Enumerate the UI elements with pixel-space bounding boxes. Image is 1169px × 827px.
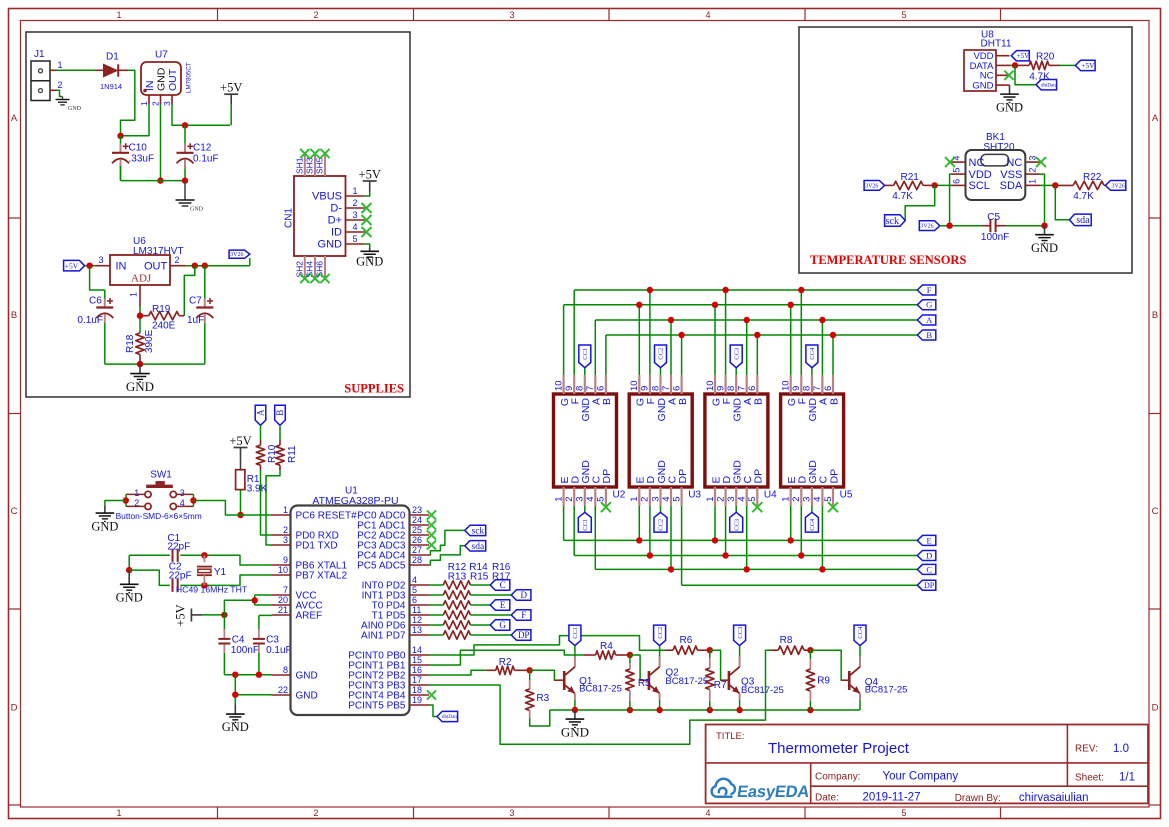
svg-text:GND: GND [155, 67, 167, 91]
ground below R18 [139, 364, 141, 374]
+5V net flag at U8 VDD [1011, 51, 1029, 61]
svg-text:6: 6 [412, 595, 417, 605]
wire U4 pin 9 to bus [725, 290, 727, 375]
wire U5 pin 2 to bus [800, 506, 802, 556]
svg-text:0.1uF: 0.1uF [77, 315, 103, 326]
junction at C12 top [182, 122, 188, 128]
U3 top pin 8 (GND) [659, 375, 661, 394]
svg-text:U4: U4 [764, 490, 777, 501]
resistor R21 4.7K [885, 184, 894, 186]
svg-text:G: G [926, 300, 932, 310]
U3 bottom pin 1 (E) [638, 487, 640, 506]
transistor Q2 BC817-25 [659, 646, 661, 657]
wire ADJ down [139, 306, 141, 333]
wire U4 pin 7 to bus [746, 320, 748, 375]
wire U3 pin 9 to bus [649, 290, 651, 375]
U1 pin 10 PB7 XTAL2 [272, 574, 291, 576]
svg-text:1uF: 1uF [187, 315, 204, 326]
resistor R1 3.9K [240, 458, 242, 470]
ground at crystal [128, 570, 130, 584]
wire U5 bottom GND to CC flag [811, 506, 813, 513]
net flag sda at U1 [465, 541, 486, 551]
svg-text:A: A [256, 409, 266, 416]
svg-text:28: 28 [412, 555, 422, 565]
svg-text:PC5 ADC5: PC5 ADC5 [357, 561, 406, 572]
svg-text:4.7K: 4.7K [892, 191, 913, 202]
svg-text:15: 15 [412, 655, 422, 665]
junction SCL [932, 182, 938, 188]
U4 top pin 8 (GND) [735, 375, 737, 394]
svg-text:SHT20: SHT20 [983, 142, 1015, 153]
svg-text:11: 11 [412, 605, 421, 615]
svg-text:3: 3 [283, 535, 288, 545]
U6 pin 3 IN [96, 265, 111, 267]
net flag CC3 above U4 [730, 345, 742, 368]
resistor R12 [429, 584, 443, 586]
svg-text:14: 14 [412, 645, 422, 655]
svg-text:CC1: CC1 [572, 627, 579, 639]
wire C5 to gnd junction [1006, 225, 1045, 227]
net flag A right [917, 315, 936, 325]
svg-text:6: 6 [747, 386, 758, 391]
svg-text:1: 1 [134, 488, 139, 498]
no-connect X on D+ [362, 215, 372, 225]
svg-text:+5V: +5V [220, 81, 242, 95]
wire U7 GND down [160, 104, 162, 181]
svg-text:D: D [11, 703, 18, 714]
svg-text:3: 3 [509, 808, 514, 818]
svg-text:GND: GND [296, 691, 318, 702]
svg-text:1.0: 1.0 [1113, 743, 1129, 755]
junction U4 A bus [744, 317, 750, 323]
wire U4 pin 10 to bus [714, 305, 716, 375]
crystal Y1 HC49 16MHz THT [203, 555, 205, 562]
resistor R3 [529, 670, 531, 680]
BK1 pin 1 SDA [1025, 184, 1039, 186]
wire U2 pin 4 to bus [594, 506, 596, 570]
wire U5 pin 6 to bus [832, 335, 834, 375]
wire U5 pin 10 to bus [790, 305, 792, 375]
svg-text:1: 1 [283, 505, 288, 515]
U5 bottom pin 3 (GND) [811, 487, 813, 506]
CN1 pin 2 D- [346, 207, 365, 209]
svg-text:AREF: AREF [296, 611, 323, 622]
svg-text:DP: DP [753, 469, 765, 484]
svg-text:3: 3 [162, 101, 172, 106]
svg-text:R15: R15 [470, 571, 489, 582]
svg-text:Button-SMD-6×6×5mm: Button-SMD-6×6×5mm [116, 511, 202, 521]
no-connect X on BK1 pin4 [945, 157, 955, 167]
svg-text:GND: GND [356, 254, 383, 268]
net flag CC2 above Q2 [654, 625, 666, 646]
svg-text:B: B [926, 330, 932, 340]
junction U4 G bus [712, 302, 718, 308]
svg-text:SH4: SH4 [305, 261, 315, 278]
svg-text:3: 3 [98, 255, 103, 265]
U2 bottom pin 4 (C) [594, 487, 596, 506]
CN1 pin SH6 [324, 256, 326, 280]
junction on ground rail x709 [707, 707, 713, 713]
U4 top pin 6 (B) [756, 375, 758, 394]
resistor R19 240E [140, 315, 149, 317]
junction ADJ-R19-R18 [137, 313, 143, 319]
no-connect X on U1 pin at y545 [427, 540, 436, 549]
wire U2 top GND to CC flag [584, 368, 586, 375]
svg-text:Your Company: Your Company [883, 771, 959, 783]
junction U7 GND at bottom rail [157, 177, 163, 183]
U2 top pin 8 (GND) [584, 375, 586, 394]
svg-text:Y1: Y1 [214, 567, 227, 578]
svg-text:2: 2 [174, 255, 179, 265]
wire SW1 to PC6 RESET [194, 501, 272, 516]
CN1 pin SH1 [304, 152, 306, 176]
svg-text:1N914: 1N914 [100, 82, 122, 91]
no-connect X on BK1 pin3 [1036, 157, 1046, 167]
svg-text:OUT: OUT [167, 68, 179, 91]
svg-text:GND: GND [561, 725, 589, 740]
U1 pin 15 PCINT1 PB1 [410, 664, 430, 666]
svg-text:R22: R22 [1083, 172, 1102, 183]
svg-text:3: 3 [575, 497, 586, 502]
junction U6 input [86, 263, 92, 269]
svg-text:dhtData: dhtData [1041, 83, 1058, 88]
svg-text:7: 7 [283, 585, 288, 595]
svg-text:5: 5 [596, 497, 607, 502]
U4 bottom pin 3 (GND) [735, 487, 737, 506]
net flag B above R11 [275, 405, 286, 425]
BK1 pin 4 NC [952, 161, 966, 163]
U7 pin 1 [148, 95, 150, 104]
wire U4 top GND to CC flag [735, 368, 737, 375]
junction gnd-XTAL2 [126, 567, 132, 573]
left vertical to ground [128, 555, 130, 570]
junction U4 C bus [744, 566, 750, 572]
svg-text:A: A [1152, 113, 1159, 124]
svg-text:PC6 RESET#: PC6 RESET# [296, 511, 358, 522]
U1 pin 17 PCINT3 PB3 [410, 684, 430, 686]
net flag B right [917, 330, 936, 340]
svg-text:19: 19 [412, 695, 422, 705]
svg-text:GND: GND [296, 671, 318, 682]
svg-text:GND: GND [91, 519, 118, 533]
svg-text:ADJ: ADJ [131, 273, 152, 285]
junction XTAL2-Y1 [201, 582, 207, 588]
svg-text:GND: GND [318, 239, 343, 251]
junction U3 A bus [668, 317, 674, 323]
wire U2 pin 6 to bus [605, 335, 607, 375]
wire U3 pin 1 to bus [638, 506, 640, 541]
svg-text:C: C [1152, 506, 1159, 517]
capacitor C10 .33uF [120, 136, 122, 144]
svg-text:Thermometer Project: Thermometer Project [768, 740, 910, 757]
junction on ground rail x659 [656, 707, 662, 713]
junction U5 C bus [819, 566, 825, 572]
wire U3 top GND to CC flag [660, 368, 662, 375]
svg-text:1: 1 [1028, 179, 1038, 184]
wire U3 pin 4 to bus [670, 506, 672, 570]
svg-text:.33uF: .33uF [129, 154, 155, 165]
svg-text:12: 12 [412, 615, 422, 625]
U1 pin 20 AVCC [272, 604, 291, 606]
svg-text:CC3: CC3 [733, 519, 740, 531]
+5V net flag at U6 input [64, 260, 85, 271]
svg-text:dhtData: dhtData [442, 715, 459, 720]
junction XTAL1-Y1 [201, 552, 207, 558]
svg-text:26: 26 [412, 535, 422, 545]
svg-text:3: 3 [180, 488, 185, 498]
svg-text:9: 9 [715, 386, 726, 391]
svg-text:9: 9 [791, 386, 802, 391]
svg-text:4: 4 [812, 497, 823, 502]
U3 top pin 10 (G) [638, 375, 640, 394]
svg-text:IN: IN [144, 81, 156, 92]
wire R11 to PD1 [266, 470, 280, 545]
wire U3 pin 10 to bus [638, 305, 640, 375]
svg-text:C: C [500, 580, 506, 590]
crystal circuit XTAL2 wire [129, 570, 170, 585]
U1 pin 9 PB6 XTAL1 [272, 564, 291, 566]
EasyEDA logo [712, 779, 735, 797]
no-connect X on U1 pin at y515 [427, 510, 436, 519]
svg-text:5: 5 [901, 808, 906, 818]
capacitor C2 22pF [172, 579, 174, 592]
ground below C12 [184, 181, 186, 200]
transistor Q1 BC817-25 [574, 646, 576, 657]
no-connect X on U8 NC [1004, 71, 1013, 80]
no-connect X on U1 pin at y535 [427, 530, 436, 539]
wire U4 bottom GND to CC flag [735, 506, 737, 513]
junction pin22 gnd [232, 692, 238, 698]
net flag DP right [917, 580, 936, 590]
svg-text:GND: GND [1031, 241, 1058, 255]
net flag 3V26 left of R21 [864, 181, 885, 191]
net flag CC4 above U5 [806, 345, 818, 368]
net flag CC3 above Q3 [734, 625, 746, 646]
U3 top pin 9 (F) [649, 375, 651, 394]
svg-text:R5: R5 [638, 678, 651, 689]
svg-text:8: 8 [726, 386, 737, 391]
svg-text:F: F [521, 610, 526, 620]
svg-text:10: 10 [781, 380, 792, 391]
svg-text:2: 2 [715, 497, 726, 502]
wire SCL to sck flag [905, 185, 935, 220]
bottom wire C10-C12 [121, 180, 186, 182]
svg-text:B: B [677, 398, 689, 405]
svg-text:VBUS: VBUS [312, 191, 342, 203]
wire U5 top GND to CC flag [811, 368, 813, 375]
net flag CC1 above U2 [579, 345, 591, 368]
junction U5 D bus [798, 552, 804, 558]
net flag CC1 above Q1 [569, 625, 581, 646]
svg-text:R4: R4 [600, 641, 613, 652]
svg-text:BC817-25: BC817-25 [579, 684, 622, 695]
U3 bottom pin 5 (DP) [680, 487, 682, 506]
U4 bottom pin 4 (C) [746, 487, 748, 506]
U1 pin 1 PC6 RESET# [272, 514, 291, 516]
svg-text:Drawn By:: Drawn By: [955, 793, 1001, 804]
svg-text:2: 2 [283, 525, 288, 535]
svg-text:7: 7 [812, 386, 823, 391]
ground at C5 [1044, 226, 1046, 235]
junction SDA [1052, 182, 1058, 188]
svg-text:SH5: SH5 [315, 157, 325, 174]
ground at J1 [62, 97, 64, 100]
U2 top pin 6 (B) [605, 375, 607, 394]
net flag CC1 below U2 [578, 512, 591, 532]
U1 pin 16 PCINT2 PB2 [410, 674, 430, 676]
svg-text:ID: ID [331, 227, 342, 239]
svg-text:CN1: CN1 [284, 208, 295, 228]
svg-text:REV:: REV: [1075, 744, 1098, 755]
resistor R14 [429, 604, 443, 606]
svg-text:CC1: CC1 [582, 519, 589, 531]
svg-text:6: 6 [952, 179, 962, 184]
resistor R20 4.7K [1015, 64, 1029, 66]
svg-text:5: 5 [823, 497, 834, 502]
net flag CC3 below U4 [730, 512, 743, 532]
svg-text:5: 5 [412, 585, 417, 595]
segment bus D [574, 555, 917, 557]
wire SW1 to ground [105, 501, 126, 509]
svg-text:Company:: Company: [815, 772, 861, 783]
no-connect X on U2 DP [601, 502, 611, 512]
wire D1 to U7 IN [121, 70, 135, 136]
svg-text:OUT: OUT [144, 261, 168, 273]
net flag A above R10 [255, 405, 266, 425]
wire PB2 to R2 [429, 670, 487, 675]
svg-text:4: 4 [661, 497, 672, 502]
transistor Q4 BC817-25 [859, 646, 861, 657]
wire U3 pin 5 to bus [681, 506, 683, 585]
svg-text:SH3: SH3 [305, 157, 315, 174]
svg-text:C12: C12 [193, 143, 212, 154]
svg-text:C: C [926, 564, 932, 574]
crystal circuit XTAL1 wire [129, 554, 170, 556]
U4 top pin 7 (A) [746, 375, 748, 394]
junction +5V-C4 [221, 612, 227, 618]
wire U2 pin 2 to bus [573, 506, 575, 556]
U1 pin 19 PCINT5 PB5 [410, 704, 430, 706]
wire U7 OUT to +5V rail [172, 104, 230, 125]
net flag F [511, 610, 531, 621]
net flag CC2 above U3 [655, 345, 667, 368]
svg-text:CC4: CC4 [809, 518, 816, 531]
transistor Q3 BC817-25 [739, 646, 741, 657]
U2 top pin 10 (G) [562, 375, 564, 394]
wire J1 pin2 to ground [57, 90, 63, 96]
svg-text:2019-11-27: 2019-11-27 [863, 791, 921, 803]
U1 pin 21 AREF [272, 614, 291, 616]
CN1 pin 1 VBUS [346, 195, 365, 197]
svg-text:R19: R19 [152, 304, 171, 315]
wire PC4 to sck [429, 530, 465, 555]
U1 pin 24 PC1 ADC1 [410, 524, 430, 526]
svg-text:+5V: +5V [1081, 61, 1095, 70]
svg-text:22pF: 22pF [169, 570, 192, 581]
junction U4 E bus [712, 537, 718, 543]
resistor R7 [709, 650, 711, 658]
net flag DP [511, 630, 531, 641]
U6 pin 1 ADJ [139, 285, 141, 306]
segment bus C [595, 568, 917, 570]
svg-text:DP: DP [828, 469, 840, 484]
wire CN1 GND to ground [365, 244, 370, 250]
BK1 pin 5 VDD [952, 173, 966, 175]
wire 3V26 to C5 [940, 225, 981, 227]
svg-text:6: 6 [596, 386, 607, 391]
svg-text:LM7805CT: LM7805CT [186, 62, 193, 93]
svg-text:AIN1 PD7: AIN1 PD7 [361, 631, 406, 642]
svg-text:1: 1 [629, 497, 640, 502]
U1 pin 26 PC3 ADC3 [410, 544, 430, 546]
wire U2 bottom GND to CC flag [584, 506, 586, 513]
svg-text:7: 7 [737, 386, 748, 391]
junction VSS-C5-gnd [1041, 223, 1047, 229]
+5V net flag right of R20 [1075, 60, 1095, 70]
svg-text:100nF: 100nF [231, 645, 259, 656]
svg-text:16: 16 [412, 665, 422, 675]
svg-text:R7: R7 [714, 680, 727, 691]
U3 bottom pin 2 (D) [649, 487, 651, 506]
svg-text:HC49 16MHz THT: HC49 16MHz THT [176, 584, 248, 594]
svg-text:BC817-25: BC817-25 [741, 685, 784, 696]
svg-text:GND: GND [222, 720, 249, 734]
svg-text:E: E [500, 600, 506, 610]
resistor R17 [429, 634, 443, 636]
net flag E right [917, 535, 936, 545]
capacitor C12 0.1uF [184, 125, 186, 144]
svg-text:R3: R3 [536, 693, 549, 704]
U4 bottom pin 2 (D) [724, 487, 726, 506]
svg-text:2: 2 [58, 80, 63, 90]
bottom gnd rail of U6 circuit [105, 363, 205, 365]
svg-text:GND: GND [190, 207, 204, 213]
svg-text:D: D [926, 550, 932, 560]
resistor R22 4.7K [1055, 184, 1073, 186]
U4 bottom pin 1 (E) [714, 487, 716, 506]
svg-text:sck: sck [472, 527, 485, 537]
U2 top pin 9 (F) [573, 375, 575, 394]
CN1 pin SH2 [304, 256, 306, 280]
svg-text:D-: D- [330, 203, 342, 215]
svg-text:U7: U7 [155, 50, 168, 61]
wire R1 to reset net [240, 490, 242, 515]
svg-text:5: 5 [747, 497, 758, 502]
svg-text:0.1uF: 0.1uF [193, 154, 219, 165]
svg-text:DP: DP [518, 630, 530, 640]
wire U3 pin 7 to bus [670, 320, 672, 375]
svg-text:BC817-25: BC817-25 [865, 685, 908, 696]
svg-text:PCINT5 PB5: PCINT5 PB5 [348, 701, 406, 712]
svg-text:C5: C5 [987, 212, 1000, 223]
svg-text:sda: sda [1076, 215, 1090, 226]
wire BK1 SCL to R21 [935, 184, 952, 186]
wire U4 pin 4 to bus [746, 506, 748, 570]
wire U4 pin 2 to bus [725, 506, 727, 556]
junction U5 B bus [830, 332, 836, 338]
svg-text:J1: J1 [34, 49, 45, 60]
CN1 pin SH5 [324, 152, 326, 176]
net flag sck at U1 [465, 525, 486, 535]
wire BK1 VSS down [1040, 174, 1045, 226]
wire J1 pin1 to D1 [57, 69, 96, 71]
capacitor C6 0.1uF [104, 290, 106, 299]
wire U5 pin 1 to bus [790, 506, 792, 541]
svg-text:24: 24 [412, 515, 422, 525]
net flag G [917, 300, 936, 310]
capacitor C3 0.1uF [259, 614, 272, 616]
svg-text:R11: R11 [287, 445, 298, 463]
